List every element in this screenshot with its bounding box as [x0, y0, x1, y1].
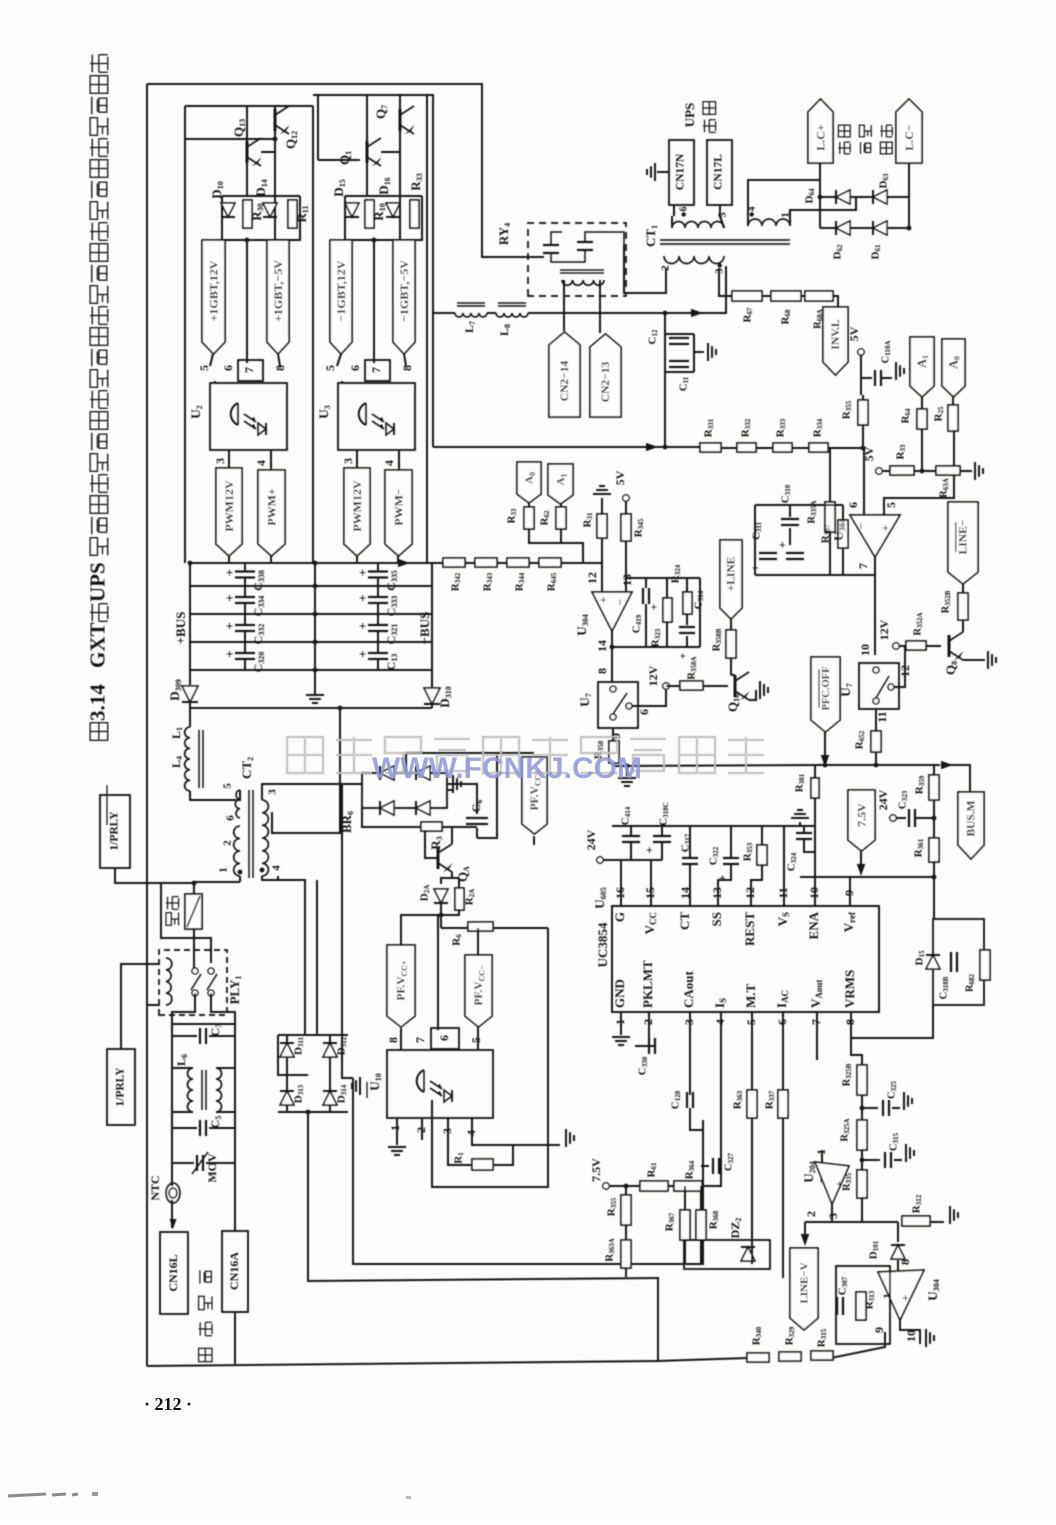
relay contact 1	[543, 244, 559, 246]
resistor R358A	[680, 681, 703, 690]
svg-text:VRMS: VRMS	[842, 970, 857, 1008]
svg-text:9: 9	[842, 890, 856, 896]
svg-text:4: 4	[254, 460, 268, 466]
svg-text:ENA: ENA	[806, 911, 821, 939]
wire U304a out	[611, 631, 613, 682]
opto U3 box	[338, 383, 415, 450]
svg-text:GND: GND	[612, 979, 627, 1008]
wire U204 out	[805, 1221, 870, 1223]
svg-text:4: 4	[271, 865, 283, 871]
wire R33 R62 to rail	[529, 529, 583, 563]
svg-text:12V: 12V	[646, 665, 660, 686]
transformer CT2 winding 5-6	[235, 790, 240, 818]
tag PWM12V	[216, 468, 242, 556]
capacitor C324	[796, 832, 812, 834]
transistor QA	[437, 847, 440, 869]
wire bus row	[190, 585, 432, 587]
wire ref bottom	[755, 574, 875, 576]
svg-text:SS: SS	[709, 912, 724, 926]
wire filter left rail	[171, 1024, 173, 1171]
opto U10 box	[387, 1050, 493, 1118]
diode D14	[263, 203, 277, 217]
capacitor C333	[368, 596, 388, 598]
terminal 12V a	[663, 683, 669, 689]
wire bus bottom	[190, 707, 432, 709]
wire CT1 pin1 up	[790, 197, 856, 226]
tag PWM12V 2	[344, 468, 370, 556]
wire ENA branch	[814, 765, 816, 906]
tag PWM-	[385, 470, 412, 556]
wire to R367	[684, 1186, 686, 1210]
resistor R355 right	[858, 400, 868, 425]
diode BR6 b	[416, 766, 430, 780]
svg-text:7.5V: 7.5V	[589, 1158, 603, 1182]
resistor R358B	[726, 630, 736, 658]
label 出	[703, 120, 716, 133]
capacitor C314	[679, 626, 695, 628]
bridge BR6	[362, 773, 447, 808]
wire pin6 up	[863, 449, 865, 515]
wire down to pin6 box	[437, 916, 439, 1030]
capacitor C318C	[653, 835, 671, 837]
svg-text:9: 9	[872, 1327, 886, 1333]
wire second drop to bridge	[316, 880, 318, 1035]
wire to LINE-V	[804, 1222, 806, 1234]
wire D15 R10 bottom rail	[345, 196, 422, 240]
svg-text:13: 13	[710, 887, 724, 899]
ground pin1	[612, 1036, 630, 1038]
wire U3 pin3	[356, 450, 358, 468]
ground CN17N	[654, 163, 656, 181]
wire filter top	[172, 1023, 235, 1025]
svg-text:PWM12V: PWM12V	[350, 480, 364, 532]
ground Q10	[759, 681, 761, 699]
diode BR6 c	[380, 801, 394, 815]
svg-text:MOV: MOV	[205, 1153, 219, 1183]
svg-text:1: 1	[882, 1293, 894, 1299]
wire 24V rail	[603, 859, 662, 861]
resistor R343	[475, 558, 497, 567]
relay contact 2	[577, 241, 593, 243]
zener DZ2	[741, 1247, 755, 1261]
svg-text:−BUS: −BUS	[417, 612, 432, 645]
wire coil to CN2-14	[563, 280, 565, 331]
capacitor C311b	[786, 552, 804, 554]
wire R345 to pin13	[625, 541, 627, 592]
wire CN16A to border	[234, 1312, 236, 1364]
diode D62	[836, 221, 850, 235]
transistor Q1	[366, 141, 369, 163]
resistor R645	[539, 558, 561, 567]
svg-text:UC3854: UC3854	[595, 922, 610, 967]
wire R363A to loop	[625, 1268, 627, 1277]
resistor R652	[871, 731, 881, 752]
svg-text:7: 7	[856, 563, 870, 569]
tag +IGBT,-5V	[267, 240, 289, 354]
svg-text:+: +	[775, 541, 789, 548]
terminal 5V mid	[623, 495, 629, 501]
wire vcc top rail	[612, 825, 815, 827]
wire pin6	[782, 1012, 784, 1090]
svg-text:10: 10	[807, 887, 821, 899]
svg-text:CN17N: CN17N	[675, 153, 687, 190]
ground C12	[707, 343, 709, 361]
svg-text:6: 6	[225, 815, 237, 821]
wire tag to bus	[228, 556, 230, 563]
resistor R31	[597, 514, 607, 538]
svg-text:L.C+: L.C+	[813, 124, 827, 151]
svg-text:PWM−: PWM−	[391, 488, 405, 526]
svg-text:+: +	[355, 569, 370, 576]
wire choke to CT2	[190, 790, 240, 800]
svg-text:CT: CT	[677, 912, 692, 930]
wire to BUS.M	[820, 764, 940, 766]
core CT1	[660, 239, 790, 241]
resistor R364	[674, 1181, 702, 1191]
wire bridge bottom	[278, 1111, 348, 1113]
resistor R33 driver	[410, 200, 419, 228]
wire R334 to R355 node	[828, 447, 863, 449]
relay coil PLY1	[166, 958, 172, 1005]
wire contact2 to filter	[211, 993, 235, 1024]
box DZ2 area	[684, 1240, 770, 1269]
wire bus sense chain	[933, 765, 935, 919]
ground U10 pin4	[565, 1129, 567, 1147]
wire C6 top	[447, 784, 477, 814]
wire rail to L7	[433, 312, 455, 314]
wire tag4 to pin8	[404, 354, 406, 366]
opto U2 box	[210, 383, 287, 450]
svg-text:+: +	[898, 1294, 912, 1301]
svg-text:+1GBT,−5V: +1GBT,−5V	[271, 260, 285, 322]
wire U304b out	[874, 557, 876, 655]
svg-text:6: 6	[846, 502, 860, 508]
diode D10	[221, 203, 235, 217]
label 电	[199, 1322, 212, 1335]
wire C12 to sense line	[664, 372, 666, 447]
wire U2 pin3	[228, 450, 230, 468]
resistor R11	[288, 200, 297, 228]
svg-text:CN2−13: CN2−13	[600, 362, 612, 403]
wire BR6 left drop	[342, 784, 353, 1078]
wire pin8 to loop	[851, 1005, 933, 1038]
svg-text:12: 12	[585, 572, 599, 584]
svg-text:M.T: M.T	[743, 983, 758, 1008]
transistor Q7	[399, 109, 402, 131]
wire pin4 to gnd	[472, 1118, 560, 1145]
svg-text:8: 8	[400, 365, 414, 371]
wire to INV.L	[833, 296, 838, 307]
wire R358A to Q10	[703, 685, 728, 687]
resistor R344	[507, 558, 529, 567]
capacitor C318B	[950, 952, 952, 972]
box D15 loop	[933, 919, 984, 1005]
svg-text:8: 8	[843, 1019, 857, 1025]
wire 5V branch	[862, 395, 864, 449]
wire coil to CN2-13	[599, 280, 601, 333]
tag PWM+	[258, 470, 285, 556]
diode D314	[323, 1091, 337, 1105]
wire driver block mid edge	[312, 106, 314, 563]
capacitor C315	[884, 1152, 886, 1168]
scan marks bottom left	[8, 1494, 78, 1496]
resistor R335	[857, 1170, 867, 1198]
wire pin2	[421, 1118, 423, 1140]
wire bridge top	[278, 1034, 348, 1036]
ground C110A	[895, 362, 897, 380]
wire R352A to Q8 base	[926, 645, 941, 647]
svg-text:1/PRLY: 1/PRLY	[109, 811, 121, 851]
transistor Q8	[948, 635, 951, 657]
wire pin3	[689, 1012, 691, 1095]
svg-text:−1GBT,−5V: −1GBT,−5V	[397, 260, 411, 322]
fuse 保险	[185, 894, 202, 929]
svg-text:−1GBT,12V: −1GBT,12V	[334, 260, 348, 321]
tag CN2-14	[549, 332, 580, 417]
analog switch U7a	[598, 682, 638, 728]
resistor R363	[747, 1090, 757, 1118]
wire pin1 gnd	[396, 1118, 398, 1145]
svg-text:24V: 24V	[876, 789, 890, 810]
capacitor C419	[642, 588, 644, 604]
ground U304c	[925, 1329, 927, 1347]
wire pin1 gnd	[620, 1012, 622, 1035]
tag A0 right	[942, 339, 965, 397]
wire D10 R30 bottom rail	[222, 196, 300, 240]
wire CN17L to CT1	[719, 205, 721, 216]
terminal 24V right	[890, 815, 896, 821]
capacitor C3	[199, 1028, 201, 1044]
svg-text:CN2−14: CN2−14	[559, 361, 571, 402]
svg-text:NTC: NTC	[148, 1175, 162, 1200]
wire left border	[146, 84, 148, 1366]
wire to C12	[664, 313, 666, 334]
diode D16	[386, 203, 400, 217]
resistor R324	[683, 592, 692, 614]
wire R2A bottom	[441, 910, 459, 915]
wire PF.VCC+ to pin8	[400, 1028, 402, 1050]
inductor L6 right	[216, 1068, 222, 1112]
wire CT1 pin3 to R67	[719, 268, 732, 296]
wire bottom to R340	[658, 1358, 747, 1361]
resistor R68A	[805, 291, 833, 301]
capacitor C330	[648, 1038, 650, 1054]
resistor R381	[811, 778, 819, 798]
wire fuse to contact	[193, 929, 195, 971]
tag A1 mid	[548, 464, 573, 504]
capacitor C6	[466, 817, 488, 819]
wire Q13-Q12 emitters	[261, 131, 275, 152]
resistor R329	[779, 1352, 801, 1361]
wire R335A down	[830, 532, 852, 575]
wire tag1 to pin5	[210, 354, 213, 366]
capacitor C332	[235, 624, 255, 626]
label 电	[859, 125, 871, 137]
terminal 12V b	[893, 643, 899, 649]
label 电	[199, 1296, 212, 1309]
svg-text:CN16L: CN16L	[166, 1254, 180, 1291]
resistor R340	[747, 1353, 769, 1362]
wire bridge rail 1	[820, 196, 909, 198]
svg-text:LINE−V: LINE−V	[799, 1262, 811, 1303]
tag L.C-	[896, 99, 922, 163]
core CT2	[248, 790, 250, 878]
wire U10 loop	[432, 928, 548, 1187]
diode D15	[926, 955, 940, 969]
svg-text:8: 8	[386, 1037, 400, 1043]
svg-text:+: +	[649, 604, 661, 610]
svg-text:+: +	[748, 564, 762, 571]
svg-text:+: +	[355, 650, 370, 657]
wire 7.5V to R61	[609, 1185, 640, 1187]
resistor R359	[929, 775, 939, 800]
svg-text:PWM+: PWM+	[264, 488, 278, 526]
resistor R315	[811, 1351, 833, 1360]
wire tag3 to pin5	[337, 354, 341, 366]
tag PF.VCC+	[387, 945, 415, 1027]
svg-text:8: 8	[273, 365, 287, 371]
svg-text:PWM12V: PWM12V	[222, 480, 236, 532]
wire bus to CT2 secondary	[272, 708, 340, 833]
tag LINE-	[948, 502, 978, 584]
wire pin5	[751, 1012, 753, 1090]
tag PFC.OFF	[811, 657, 840, 732]
resistor R68	[771, 291, 801, 301]
wire relay out to CT1	[624, 245, 666, 293]
svg-text:+: +	[715, 874, 729, 881]
wire NTC to CN16L	[171, 1200, 173, 1228]
wire LC- down	[908, 163, 910, 228]
svg-text:+: +	[596, 596, 610, 603]
svg-text:12: 12	[743, 887, 757, 899]
svg-text:−: −	[854, 522, 868, 529]
wire pin3 to R1	[448, 1118, 472, 1165]
ground R358 line	[618, 777, 636, 779]
svg-text:3: 3	[341, 458, 355, 464]
inductor L1 L4	[185, 727, 190, 791]
svg-text:1: 1	[388, 1125, 402, 1131]
wire pin16	[620, 860, 622, 906]
diode D15	[345, 203, 359, 217]
wire pin5 to R25	[884, 431, 954, 515]
svg-text:4: 4	[713, 1019, 727, 1025]
wire inverter output rail	[313, 95, 433, 447]
capacitor C128	[686, 1092, 688, 1108]
resistor R352B	[958, 593, 968, 620]
ground C325	[903, 1092, 905, 1110]
wire to R335A	[829, 448, 831, 502]
label 输	[838, 125, 850, 137]
capacitor C12	[669, 337, 689, 339]
tag -IGBT,12V	[330, 240, 352, 354]
wire CT2 pin4 to bridge	[262, 876, 305, 1035]
wire bridge left tap	[278, 1035, 308, 1075]
svg-text:+: +	[355, 622, 370, 629]
wire CT2 sec to BR6	[262, 784, 362, 800]
resistor R313	[856, 1292, 866, 1320]
svg-text:3: 3	[213, 458, 227, 464]
svg-text:6: 6	[348, 365, 362, 371]
wire gate node left channel	[274, 152, 276, 240]
resistor R64	[917, 409, 927, 429]
capacitor C311a	[759, 552, 777, 554]
transistor Q13	[246, 141, 249, 163]
ground R63A	[974, 462, 976, 480]
wire bus row	[190, 669, 432, 671]
wire Q1 rail	[318, 159, 360, 161]
svg-text:6: 6	[637, 709, 651, 715]
terminal 24V	[597, 857, 603, 863]
pin 7 box U3	[365, 360, 390, 381]
svg-text:11: 11	[776, 887, 790, 898]
resistor R3	[421, 822, 442, 831]
watermark 杭州将睿科技有限公司	[287, 737, 323, 773]
core RY4 coil	[560, 269, 604, 271]
svg-text:2: 2	[641, 1019, 655, 1025]
wire BR6 to R3	[362, 808, 421, 827]
svg-text:3: 3	[440, 1128, 454, 1134]
resistor R368	[696, 1210, 706, 1240]
svg-text:24V: 24V	[584, 829, 598, 850]
svg-text:4: 4	[382, 460, 396, 466]
wire pin11	[783, 826, 785, 906]
op-amp U204	[815, 1162, 849, 1204]
resistor R25	[948, 405, 958, 431]
capacitor C334	[235, 596, 255, 598]
diode D63	[873, 190, 887, 204]
wire sense line	[433, 446, 700, 448]
wire U3 pin4	[398, 450, 400, 470]
tag PF.VCC-	[465, 955, 492, 1027]
box 1/PRLY lower	[107, 1049, 135, 1125]
resistor R333	[773, 443, 792, 452]
inductor L8	[496, 313, 528, 317]
svg-text:5: 5	[717, 212, 729, 218]
wire +BUS rail	[189, 563, 191, 685]
svg-text:REST: REST	[742, 912, 757, 946]
resistor R332	[737, 443, 756, 452]
wire CT1 to LC bridge	[748, 180, 820, 226]
svg-text:12V: 12V	[877, 619, 891, 640]
svg-text:10: 10	[904, 1330, 918, 1342]
thermistor NTC	[166, 1183, 180, 1203]
svg-text:2: 2	[414, 1127, 428, 1133]
svg-text:+: +	[642, 846, 656, 853]
analog switch U7b	[859, 663, 899, 709]
label 市	[199, 1348, 212, 1361]
wire driver block top left	[185, 105, 313, 107]
label 源	[200, 1270, 212, 1283]
wire R315 to U304 pin9	[831, 1332, 885, 1358]
resistor R6	[468, 922, 493, 931]
wire top border to RY4 contact	[147, 84, 540, 257]
pin 7 box U2	[238, 360, 263, 381]
svg-text:−: −	[613, 598, 627, 605]
svg-text:3: 3	[267, 789, 279, 795]
wire U2 pin4	[270, 450, 272, 470]
label 测	[880, 142, 892, 154]
op-amp U304c	[878, 1270, 924, 1320]
svg-text:+: +	[222, 569, 237, 576]
inductor L6 left	[188, 1068, 193, 1112]
ground Q8	[987, 651, 989, 669]
op-amp U304a	[592, 592, 632, 631]
capacitor C110A	[874, 370, 876, 386]
diode D2A	[434, 889, 448, 903]
capacitor C310	[781, 518, 799, 520]
ground C315	[905, 1144, 907, 1162]
tag 7.5V	[848, 790, 875, 851]
